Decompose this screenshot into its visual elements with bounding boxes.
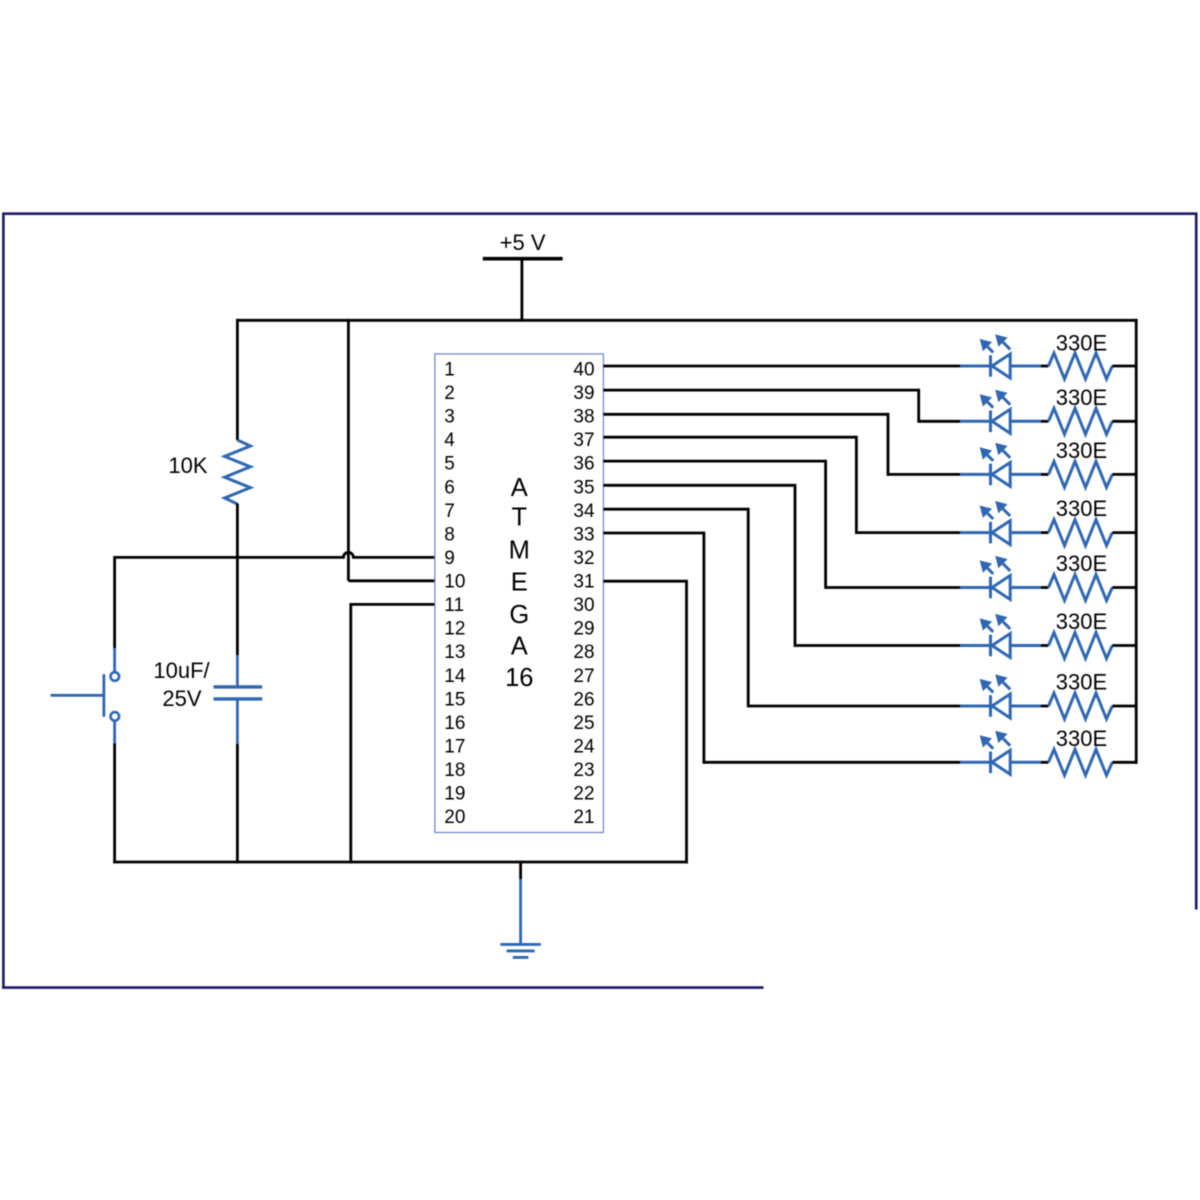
svg-text:26: 26 (573, 689, 594, 710)
svg-text:8: 8 (444, 524, 455, 545)
svg-text:20: 20 (444, 807, 465, 828)
svg-text:25V: 25V (162, 686, 201, 711)
svg-text:330E: 330E (1056, 609, 1107, 634)
svg-text:330E: 330E (1056, 670, 1107, 695)
svg-text:1: 1 (444, 359, 455, 380)
resistor R3 330E (1049, 385, 1113, 435)
svg-text:M: M (509, 537, 530, 565)
wire resistor R6 to +5V rail (1112, 586, 1137, 589)
svg-text:40: 40 (573, 359, 594, 380)
svg-text:6: 6 (444, 477, 455, 498)
wire ground stem (519, 861, 522, 879)
IC U1 ATMEGA16 body (435, 354, 604, 833)
svg-text:37: 37 (573, 430, 594, 451)
svg-text:13: 13 (444, 642, 465, 663)
svg-text:30: 30 (573, 595, 594, 616)
svg-text:2: 2 (444, 383, 455, 404)
svg-text:10K: 10K (168, 453, 207, 478)
LED D5 (960, 556, 1041, 600)
svg-text:14: 14 (444, 666, 466, 687)
svg-text:22: 22 (573, 784, 594, 805)
wire pin37 to LED D4 (603, 436, 856, 439)
U1 pin numbers left column 1-20 (444, 359, 466, 828)
svg-text:A: A (511, 474, 528, 502)
wire pin34 to LED D7 (603, 508, 748, 511)
push-button S1 (51, 672, 120, 721)
resistor R7 330E (1049, 609, 1113, 659)
wire resistor R3 to +5V rail (1112, 420, 1137, 423)
svg-text:17: 17 (444, 737, 465, 758)
svg-text:21: 21 (573, 807, 594, 828)
LED D1 (960, 334, 1041, 378)
wire right +5V rail (1135, 319, 1138, 764)
svg-text:35: 35 (573, 477, 594, 498)
svg-text:T: T (512, 504, 528, 532)
ground (500, 944, 541, 957)
LED D7 (960, 674, 1041, 718)
svg-text:39: 39 (573, 383, 594, 404)
wire resistor R5 to +5V rail (1112, 531, 1137, 534)
LED D2 (960, 390, 1041, 434)
node +5V supply (483, 230, 563, 259)
wire 10K bottom lead / capacitor top lead (236, 504, 239, 656)
wire button bottom lead (113, 721, 116, 743)
svg-text:36: 36 (573, 454, 594, 475)
resistor R1 10K (168, 440, 250, 504)
svg-text:330E: 330E (1056, 331, 1107, 356)
wire LED D3 to resistor (1041, 473, 1049, 476)
svg-text:3: 3 (444, 407, 455, 428)
svg-text:330E: 330E (1056, 385, 1107, 410)
svg-text:4: 4 (444, 430, 455, 451)
capacitor C1 10uF/25V (153, 658, 262, 711)
svg-text:12: 12 (444, 619, 465, 640)
svg-text:16: 16 (444, 713, 465, 734)
svg-text:E: E (511, 568, 528, 596)
svg-text:28: 28 (573, 642, 594, 663)
svg-text:19: 19 (444, 784, 465, 805)
LED D4 (960, 501, 1041, 545)
svg-text:330E: 330E (1056, 726, 1107, 751)
resistor R6 330E (1049, 551, 1113, 601)
wire pin10 VCC from bus (347, 319, 350, 581)
wire LED D7 to resistor (1041, 705, 1049, 708)
wire bottom ground rail (113, 861, 688, 864)
wire LED D1 to resistor (1041, 365, 1049, 368)
wire 10K top lead (236, 319, 239, 440)
svg-text:27: 27 (573, 666, 594, 687)
svg-text:330E: 330E (1056, 551, 1107, 576)
svg-text:G: G (509, 601, 529, 629)
LED D8 (960, 731, 1041, 775)
wire LED D4 to resistor (1041, 531, 1049, 534)
resistor R2 330E (1049, 331, 1113, 379)
svg-text:5: 5 (444, 454, 455, 475)
wire pin36 to LED D5 (603, 460, 825, 463)
resistor R4 330E (1049, 438, 1113, 488)
svg-text:330E: 330E (1056, 438, 1107, 463)
LED D6 (960, 614, 1041, 658)
wire pin11 GND down (351, 603, 435, 606)
wire button top lead (113, 556, 116, 648)
svg-text:34: 34 (573, 501, 595, 522)
svg-text:32: 32 (573, 548, 594, 569)
wire LED D2 to resistor (1041, 420, 1049, 423)
wire pin40 to LED D1 (603, 365, 960, 368)
wire resistor R9 to +5V rail (1112, 761, 1137, 764)
wire pin38 to LED D3 (603, 413, 888, 416)
svg-text:10: 10 (444, 572, 465, 593)
wire pin39 to LED D2 (603, 389, 918, 392)
wire capacitor bottom lead (236, 700, 239, 744)
svg-text:+5 V: +5 V (500, 230, 546, 255)
svg-text:A: A (511, 632, 528, 660)
wire +5V stem (521, 260, 524, 322)
svg-text:9: 9 (444, 548, 455, 569)
U1 pin numbers right column 40-21 (573, 359, 595, 828)
svg-text:330E: 330E (1056, 496, 1107, 521)
svg-text:7: 7 (444, 501, 455, 522)
svg-text:10uF/: 10uF/ (153, 658, 210, 683)
LED D3 (960, 443, 1041, 487)
svg-text:25: 25 (573, 713, 594, 734)
svg-text:31: 31 (573, 572, 594, 593)
wire resistor R4 to +5V rail (1112, 473, 1137, 476)
wire pin9 RESET line with hop (115, 552, 435, 557)
svg-text:29: 29 (573, 619, 594, 640)
resistor R8 330E (1049, 670, 1113, 720)
U1 label ATMEGA16 (505, 474, 533, 692)
resistor R9 330E (1049, 726, 1113, 776)
wire pin35 to LED D6 (603, 484, 795, 487)
svg-text:16: 16 (505, 664, 533, 692)
wire top +5V bus (236, 319, 1138, 322)
wire resistor R7 to +5V rail (1112, 644, 1137, 647)
svg-text:24: 24 (573, 737, 595, 758)
wire pin31 GND to rail (603, 580, 688, 583)
svg-text:15: 15 (444, 689, 465, 710)
wire resistor R2 to +5V rail (1112, 365, 1137, 368)
wire LED D6 to resistor (1041, 644, 1049, 647)
svg-text:33: 33 (573, 524, 594, 545)
svg-text:18: 18 (444, 760, 465, 781)
wire LED D8 to resistor (1041, 761, 1049, 764)
resistor R5 330E (1049, 496, 1113, 546)
svg-text:11: 11 (444, 595, 464, 616)
svg-text:38: 38 (573, 407, 594, 428)
svg-text:23: 23 (573, 760, 594, 781)
wire LED D5 to resistor (1041, 586, 1049, 589)
wire resistor R8 to +5V rail (1112, 705, 1137, 708)
wire pin33 to LED D8 (603, 532, 704, 535)
